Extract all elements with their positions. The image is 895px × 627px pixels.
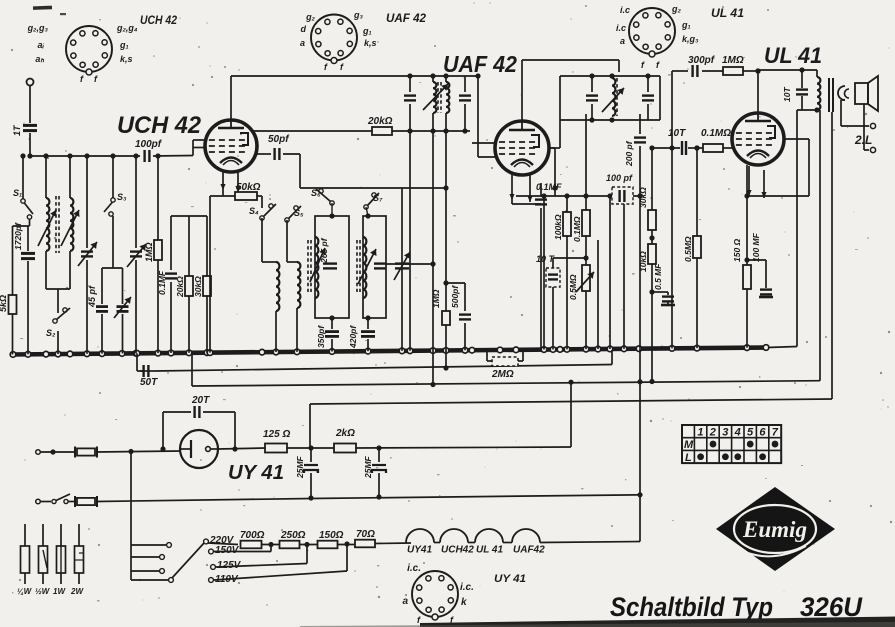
svg-text:30kΩ: 30kΩ <box>193 276 203 297</box>
svg-text:Eumig: Eumig <box>742 517 807 542</box>
svg-text:20kΩ: 20kΩ <box>367 116 393 127</box>
svg-text:2MΩ: 2MΩ <box>491 369 514 380</box>
svg-text:700Ω: 700Ω <box>240 530 265 541</box>
svg-text:UAF 42: UAF 42 <box>443 51 517 77</box>
svg-text:7: 7 <box>772 427 779 439</box>
svg-text:UAF42: UAF42 <box>513 545 545 556</box>
svg-text:1MΩ: 1MΩ <box>722 55 744 66</box>
svg-text:UCH 42: UCH 42 <box>117 112 202 139</box>
svg-text:10kΩ: 10kΩ <box>638 251 648 272</box>
svg-text:50kΩ: 50kΩ <box>236 182 261 193</box>
svg-text:100 pf: 100 pf <box>606 173 633 183</box>
svg-text:S₇: S₇ <box>373 193 383 203</box>
svg-text:g₁: g₁ <box>119 40 129 50</box>
svg-text:a: a <box>402 596 408 607</box>
svg-text:2W: 2W <box>70 587 84 596</box>
svg-text:20T: 20T <box>191 395 210 406</box>
svg-text:30kΩ: 30kΩ <box>638 187 648 208</box>
svg-text:100pf: 100pf <box>135 139 163 150</box>
svg-text:i.c.: i.c. <box>460 582 474 593</box>
svg-text:1MΩ: 1MΩ <box>431 289 441 308</box>
svg-text:g₂: g₂ <box>671 4 681 14</box>
svg-text:1W: 1W <box>53 587 66 596</box>
svg-text:2.L: 2.L <box>854 133 872 147</box>
svg-text:45 pf: 45 pf <box>87 285 97 308</box>
svg-text:0.5 MF: 0.5 MF <box>653 263 663 290</box>
svg-text:300pf: 300pf <box>688 55 716 66</box>
svg-text:50pf: 50pf <box>268 134 290 145</box>
svg-text:1MΩ: 1MΩ <box>144 242 154 262</box>
svg-text:d: d <box>301 24 307 34</box>
svg-text:150V: 150V <box>215 545 240 556</box>
svg-text:a: a <box>620 36 625 46</box>
svg-text:i.c: i.c <box>620 5 630 15</box>
svg-text:aᵢ: aᵢ <box>37 40 44 50</box>
svg-text:g₂,g₄: g₂,g₄ <box>116 23 138 33</box>
svg-text:k: k <box>461 597 467 608</box>
svg-text:S₅: S₅ <box>294 208 304 218</box>
svg-text:0.5MΩ: 0.5MΩ <box>568 274 578 300</box>
svg-text:g₂: g₂ <box>305 12 315 22</box>
svg-text:100kΩ: 100kΩ <box>553 214 563 240</box>
svg-text:Schaltbild Typ: Schaltbild Typ <box>610 592 773 622</box>
svg-text:1T: 1T <box>12 124 22 136</box>
svg-text:a: a <box>300 38 305 48</box>
svg-text:S₁: S₁ <box>13 188 22 198</box>
svg-text:UL 41: UL 41 <box>476 545 503 556</box>
svg-text:0.1MF: 0.1MF <box>536 182 562 192</box>
svg-text:3: 3 <box>722 427 728 439</box>
svg-text:L: L <box>685 452 692 464</box>
svg-text:S₂: S₂ <box>46 328 56 338</box>
svg-text:1: 1 <box>697 427 703 439</box>
svg-text:10T: 10T <box>668 128 686 139</box>
svg-text:350pf: 350pf <box>316 325 326 348</box>
svg-text:k,s: k,s <box>364 38 377 48</box>
svg-text:¼W: ¼W <box>17 587 33 596</box>
svg-text:200 pf: 200 pf <box>624 140 634 167</box>
svg-text:g₁: g₁ <box>362 26 372 36</box>
svg-text:0.1MF: 0.1MF <box>157 270 167 295</box>
svg-text:M: M <box>684 439 694 451</box>
svg-text:UY 41: UY 41 <box>494 573 526 585</box>
svg-text:UCH 42: UCH 42 <box>140 15 178 27</box>
svg-text:UY41: UY41 <box>407 545 432 556</box>
svg-text:S₆: S₆ <box>311 188 321 198</box>
svg-text:g₃: g₃ <box>353 10 363 20</box>
svg-text:0.1MΩ: 0.1MΩ <box>572 216 582 242</box>
svg-text:0.5MΩ: 0.5MΩ <box>683 236 693 262</box>
svg-text:g₁: g₁ <box>681 20 691 30</box>
svg-text:10T: 10T <box>782 87 792 102</box>
svg-text:50T: 50T <box>140 377 158 388</box>
svg-text:5: 5 <box>747 427 754 439</box>
svg-text:2kΩ: 2kΩ <box>335 428 355 439</box>
svg-text:4: 4 <box>734 427 741 439</box>
svg-text:aₕ: aₕ <box>35 54 44 64</box>
svg-text:2: 2 <box>709 427 716 439</box>
svg-text:150Ω: 150Ω <box>319 530 344 541</box>
svg-text:1720pf: 1720pf <box>13 222 23 250</box>
svg-text:UL 41: UL 41 <box>711 8 744 20</box>
svg-text:UCH42: UCH42 <box>441 545 474 556</box>
svg-text:UL 41: UL 41 <box>764 43 822 68</box>
svg-text:5kΩ: 5kΩ <box>0 295 8 312</box>
svg-text:UY 41: UY 41 <box>228 462 284 484</box>
svg-text:25MF: 25MF <box>295 455 305 479</box>
svg-text:25MF: 25MF <box>363 455 373 479</box>
svg-text:S₄: S₄ <box>249 206 259 216</box>
svg-text:250Ω: 250Ω <box>280 530 306 541</box>
svg-text:125 Ω: 125 Ω <box>263 429 290 440</box>
svg-text:70Ω: 70Ω <box>356 529 375 540</box>
svg-text:500pf: 500pf <box>450 285 460 308</box>
svg-text:g₂,g₃: g₂,g₃ <box>27 23 49 33</box>
svg-text:100 MF: 100 MF <box>751 232 761 262</box>
svg-text:S₃: S₃ <box>117 192 127 202</box>
svg-text:0.1MΩ: 0.1MΩ <box>701 128 731 139</box>
svg-text:½W: ½W <box>35 587 51 596</box>
svg-text:i.c.: i.c. <box>407 563 421 574</box>
svg-text:420pf: 420pf <box>348 325 358 349</box>
svg-text:20kΩ: 20kΩ <box>175 276 185 298</box>
svg-text:6: 6 <box>759 427 766 439</box>
svg-text:i.c: i.c <box>616 23 626 33</box>
svg-text:k,s: k,s <box>120 54 133 64</box>
svg-text:150 Ω: 150 Ω <box>732 238 742 262</box>
svg-text:k,g₃: k,g₃ <box>682 34 699 44</box>
svg-text:UAF 42: UAF 42 <box>386 13 427 25</box>
